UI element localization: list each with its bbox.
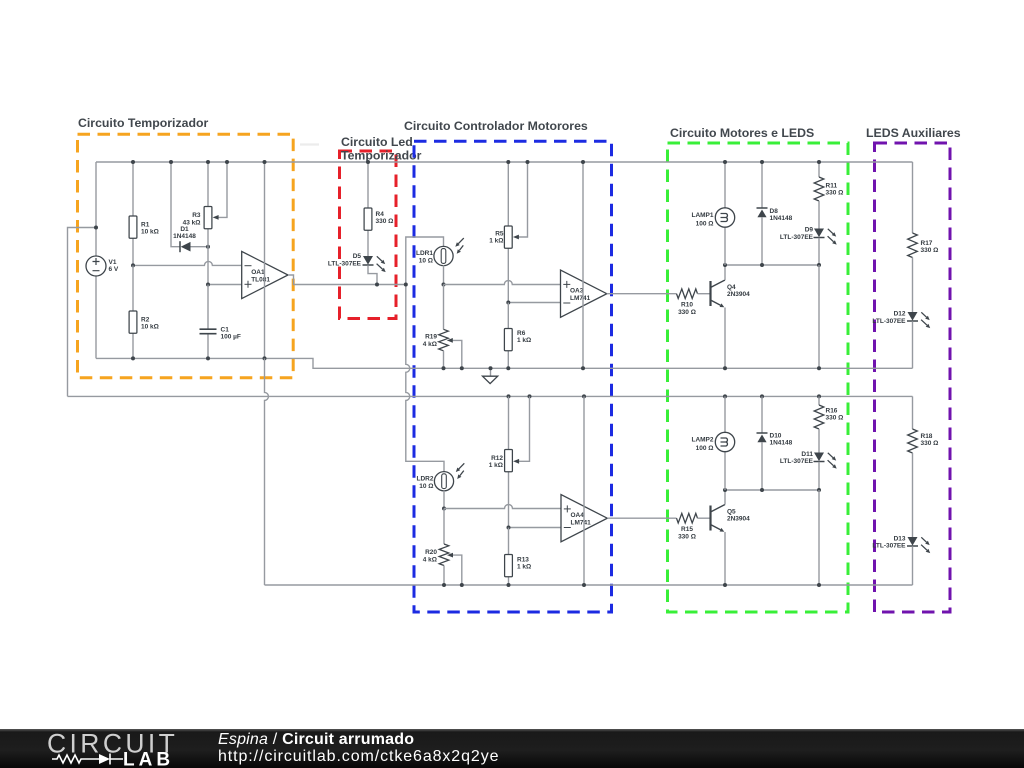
- svg-text:330 Ω: 330 Ω: [921, 440, 939, 447]
- resistor R4 330: [364, 162, 393, 256]
- power rail vertical through OA4: [583, 396, 585, 585]
- power rail vertical through OA3: [582, 162, 584, 368]
- svg-text:R20: R20: [425, 549, 437, 556]
- svg-text:R4: R4: [376, 211, 385, 218]
- resistor R6 1k: [504, 303, 531, 369]
- svg-text:R12: R12: [491, 455, 503, 462]
- svg-text:Circuito Controlador Motorores: Circuito Controlador Motorores: [404, 119, 588, 133]
- wire collector node top half: [725, 264, 819, 266]
- svg-text:R16: R16: [826, 408, 838, 415]
- svg-text:R1: R1: [141, 222, 150, 229]
- wire OA1 output: [288, 275, 406, 285]
- svg-text:1N4148: 1N4148: [173, 233, 196, 240]
- svg-text:LM741: LM741: [570, 295, 591, 302]
- wire top supply rail: [96, 161, 913, 163]
- svg-text:1N4148: 1N4148: [770, 215, 793, 222]
- svg-text:LEDS Auxiliares: LEDS Auxiliares: [866, 126, 961, 140]
- svg-text:330 Ω: 330 Ω: [826, 190, 844, 197]
- svg-text:100 µF: 100 µF: [221, 334, 241, 341]
- wiper loop of R5: [513, 162, 528, 239]
- wiper loop of R3: [213, 162, 227, 220]
- svg-text:10 kΩ: 10 kΩ: [141, 229, 159, 236]
- lamp LAMP1 100: [691, 162, 734, 265]
- svg-text:LTL-307EE: LTL-307EE: [872, 543, 906, 550]
- svg-text:10 Ω: 10 Ω: [419, 483, 433, 490]
- resistor R1 10k: [129, 162, 159, 265]
- svg-text:Q5: Q5: [727, 509, 736, 516]
- lamp LAMP2 100: [691, 396, 734, 490]
- LED D9 LTL-307EE: [780, 227, 837, 266]
- svg-text:R15: R15: [681, 526, 693, 533]
- svg-text:R19: R19: [425, 334, 437, 341]
- wire supply rail bottom half: [68, 395, 913, 397]
- photoresistor LDR2 10: [417, 463, 465, 508]
- resistor R13 1k: [505, 528, 532, 586]
- svg-text:LDR2: LDR2: [417, 476, 434, 483]
- transistor Q5 2N3904: [711, 490, 751, 585]
- svg-text:1 kΩ: 1 kΩ: [517, 337, 531, 344]
- svg-text:330 Ω: 330 Ω: [826, 415, 844, 422]
- svg-text:100 Ω: 100 Ω: [696, 445, 714, 452]
- power rail vertical through OA1: [264, 162, 266, 358]
- svg-text:OA4: OA4: [571, 512, 585, 519]
- wire OA3 non-inverting input: [444, 281, 561, 285]
- LED D5 LTL-307EE: [328, 253, 386, 272]
- svg-text:LAMP1: LAMP1: [691, 212, 713, 219]
- op-amp OA3 LM741: [561, 270, 607, 317]
- LED D13 LTL-307EE: [872, 535, 930, 585]
- wiper of R19: [447, 338, 462, 368]
- wire OA4 inverting input: [509, 527, 562, 529]
- svg-text:330 Ω: 330 Ω: [678, 309, 696, 316]
- logo resistor+diode symbol: [52, 755, 99, 763]
- svg-text:LDR1: LDR1: [416, 250, 433, 257]
- op-amp OA1 TL081: [242, 251, 288, 298]
- svg-text:Temporizador: Temporizador: [341, 149, 422, 163]
- svg-text:10 kΩ: 10 kΩ: [141, 324, 159, 331]
- wire OA3 output: [607, 293, 677, 295]
- node rail2 junction R12: [507, 394, 511, 398]
- ground link vertical to bottom half: [265, 358, 269, 585]
- wiper loop of R12: [513, 396, 529, 463]
- svg-text:2N3904: 2N3904: [727, 291, 750, 298]
- diode D1 1N4148: [171, 162, 208, 252]
- CircuitLab logo: [30, 730, 230, 768]
- wire collector node bottom half: [725, 489, 819, 491]
- resistor R10 330: [677, 289, 711, 316]
- svg-text:R13: R13: [517, 557, 529, 564]
- svg-text:4 kΩ: 4 kΩ: [423, 341, 437, 348]
- section box: Circuito Controlador Motorores (blue dashed): [414, 141, 612, 612]
- svg-text:LAB: LAB: [123, 750, 174, 768]
- wire OA1 inverting input: [133, 261, 242, 265]
- svg-text:LAMP2: LAMP2: [691, 437, 713, 444]
- svg-text:Q4: Q4: [727, 284, 736, 291]
- diode D8 1N4148: [757, 162, 793, 265]
- svg-text:R6: R6: [517, 330, 526, 337]
- ground: [483, 368, 498, 383]
- svg-text:Circuito Motores e LEDS: Circuito Motores e LEDS: [670, 126, 814, 140]
- photoresistor LDR1 10: [416, 238, 464, 284]
- svg-text:TL081: TL081: [251, 276, 270, 283]
- svg-text:1N4148: 1N4148: [770, 440, 793, 447]
- potentiometer R12 1k: [489, 396, 513, 527]
- resistor R15 330: [677, 513, 711, 540]
- svg-text:LTL-307EE: LTL-307EE: [872, 318, 906, 325]
- svg-text:330 Ω: 330 Ω: [921, 247, 939, 254]
- resistor R18 330: [908, 396, 939, 537]
- svg-text:LTL-307EE: LTL-307EE: [780, 458, 814, 465]
- svg-text:D13: D13: [894, 535, 906, 542]
- wire OA4 non-inverting input: [444, 505, 561, 509]
- resistor R2 10k: [129, 265, 159, 358]
- bottom black bar: [0, 729, 1024, 768]
- faint artifact line: [300, 143, 319, 145]
- svg-text:V1: V1: [109, 259, 117, 266]
- svg-text:R10: R10: [681, 302, 693, 309]
- wire D11 branch to ground rail: [818, 490, 820, 585]
- svg-text:D12: D12: [894, 311, 906, 318]
- svg-text:D11: D11: [801, 451, 813, 458]
- wire D5 to output line: [368, 265, 377, 284]
- svg-text:330 Ω: 330 Ω: [678, 533, 696, 540]
- svg-text:LTL-307EE: LTL-307EE: [780, 234, 814, 241]
- transistor Q4 2N3904: [711, 265, 751, 368]
- svg-text:R3: R3: [192, 212, 201, 219]
- svg-text:R18: R18: [921, 433, 933, 440]
- svg-text:D5: D5: [353, 253, 362, 260]
- svg-text:1 kΩ: 1 kΩ: [489, 462, 503, 469]
- wire output to LDR1/LDR2 tops: [406, 237, 444, 285]
- svg-text:D8: D8: [770, 208, 779, 215]
- op-amp OA4 LM741: [561, 495, 607, 542]
- potentiometer R19 4k: [423, 285, 449, 369]
- capacitor C1 100uF: [200, 285, 241, 359]
- svg-text:D1: D1: [180, 226, 189, 233]
- svg-text:43 kΩ: 43 kΩ: [183, 219, 201, 226]
- potentiometer R3 43k: [183, 162, 212, 285]
- resistor R16 330: [814, 396, 843, 452]
- svg-text:1 kΩ: 1 kΩ: [517, 564, 531, 571]
- svg-text:10 Ω: 10 Ω: [419, 257, 433, 264]
- section box: Circuito Motores e LEDS (green dashed): [668, 143, 849, 612]
- svg-text:D10: D10: [770, 433, 782, 440]
- potentiometer R20 4k: [423, 509, 449, 586]
- svg-text:Circuito Temporizador: Circuito Temporizador: [78, 116, 208, 130]
- potentiometer R5 1k: [489, 162, 512, 303]
- svg-text:100 Ω: 100 Ω: [696, 221, 714, 228]
- section box: Circuito Led Temporizador (red dashed): [340, 151, 397, 319]
- svg-text:LTL-307EE: LTL-307EE: [328, 260, 362, 267]
- wire left branch from battery: [68, 228, 97, 397]
- wire OA1 non-inverting input: [208, 284, 242, 286]
- svg-text:R11: R11: [826, 183, 838, 190]
- svg-text:C1: C1: [221, 327, 230, 334]
- section box: Circuito Temporizador (orange dashed): [78, 134, 294, 377]
- svg-text:OA3: OA3: [570, 288, 584, 295]
- node battery top junction: [94, 226, 98, 230]
- svg-text:OA1: OA1: [251, 269, 265, 276]
- LED D12 LTL-307EE: [872, 311, 930, 369]
- svg-text:LM741: LM741: [571, 520, 592, 527]
- svg-text:D9: D9: [805, 227, 814, 234]
- svg-text:2N3904: 2N3904: [727, 516, 750, 523]
- svg-text:R5: R5: [495, 230, 504, 237]
- resistor R17 330: [908, 162, 939, 312]
- voltage source V1 6V: [86, 162, 119, 358]
- svg-text:6 V: 6 V: [109, 266, 119, 273]
- svg-text:R2: R2: [141, 317, 150, 324]
- wire OA4 output: [607, 517, 676, 519]
- diode D10 1N4148: [757, 396, 793, 490]
- wire ground rail top half (with step): [96, 358, 913, 368]
- wire ground rail bottom half: [265, 584, 913, 586]
- svg-text:R17: R17: [921, 240, 933, 247]
- svg-text:1 kΩ: 1 kΩ: [489, 238, 503, 245]
- resistor R11 330: [814, 162, 843, 229]
- section box: LEDS Auxiliares (purple dashed): [875, 143, 951, 612]
- wire D9 branch to ground rail: [818, 265, 820, 368]
- svg-text:Circuito Led: Circuito Led: [341, 135, 413, 149]
- svg-text:4 kΩ: 4 kΩ: [423, 556, 437, 563]
- svg-text:330 Ω: 330 Ω: [376, 218, 394, 225]
- wiper of R20: [447, 553, 462, 585]
- wire OA3 inverting input: [508, 302, 560, 304]
- LED D11 LTL-307EE: [780, 451, 837, 490]
